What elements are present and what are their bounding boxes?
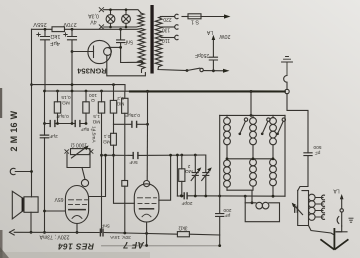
switch lever mains	[187, 68, 200, 70]
capacitor C2 electrolytic	[68, 29, 77, 91]
antenna symbol inverted	[320, 228, 348, 250]
wire R8 bottom to AF7 cathode	[114, 145, 135, 203]
RES164 filament	[72, 216, 82, 219]
fuse S1 body	[188, 14, 201, 19]
wire caps row	[45, 123, 87, 125]
node mid link col1	[226, 157, 229, 160]
node switch pivot	[186, 69, 189, 72]
RGN354 anode side contact	[104, 48, 112, 56]
wire RES164 anode up	[89, 155, 106, 196]
AF7 filament	[142, 214, 151, 217]
node HV tap	[140, 61, 143, 64]
node C1 top	[44, 28, 47, 31]
svg-text:RGN354: RGN354	[76, 67, 106, 76]
plus sign C1	[37, 33, 40, 36]
wire top B+ line right of R1	[65, 28, 142, 31]
svg-text:Ω: Ω	[91, 97, 95, 103]
bus1 B+ horizontal	[32, 85, 126, 92]
jack plug symbol	[337, 212, 342, 226]
wire mains tap 220	[161, 16, 175, 18]
band switch lever 3	[276, 133, 279, 136]
lamp LP1	[106, 10, 115, 27]
wire R6 bottom long	[124, 113, 126, 180]
RGN354 filament electrode	[93, 46, 95, 58]
svg-text:0,25μF: 0,25μF	[125, 112, 140, 118]
svg-text:220: 220	[163, 16, 172, 22]
svg-text:LA: LA	[206, 29, 213, 35]
output tube RES164 grid cap	[81, 179, 88, 186]
wire filament feed to RGN354	[72, 51, 94, 53]
wire 1nF row	[102, 154, 206, 156]
node caps row R3b	[85, 122, 88, 125]
node anode junction	[119, 46, 122, 49]
node caps row R2	[56, 122, 59, 125]
svg-text:2μF: 2μF	[49, 133, 57, 139]
svg-text:1,5: 1,5	[93, 113, 100, 119]
wire RES164 bottom	[76, 224, 78, 233]
resistor R7 body AF7 top	[122, 181, 128, 187]
resistor R3 100 body	[85, 91, 87, 102]
node caps row left	[43, 122, 46, 125]
wire C1 rail lower	[44, 91, 46, 232]
output tube RES164 envelope	[65, 186, 88, 224]
oscillator rectangle	[245, 196, 279, 222]
fuse S1 wire	[182, 16, 188, 18]
wire R4 bottom long	[101, 113, 103, 232]
coil L2a	[250, 115, 257, 158]
plus sign C2	[64, 33, 67, 36]
node trimmer2 bottom	[204, 195, 207, 198]
speaker diaphragm bar	[22, 198, 24, 212]
wire top B+ line	[32, 28, 53, 30]
bus2 chassis left part	[45, 90, 131, 92]
svg-text:220V ; 73mA: 220V ; 73mA	[39, 234, 70, 240]
wire RES164 left to speaker rail	[45, 210, 66, 212]
node 2M bottom	[180, 195, 183, 198]
node bus2 R3	[100, 90, 103, 93]
node 1nF row left	[100, 154, 103, 157]
node col3 bottom	[272, 195, 275, 198]
node bus2 coil feed	[250, 90, 253, 93]
svg-text:200: 200	[223, 207, 231, 213]
bottom rail	[102, 245, 220, 247]
AF7 anode line	[140, 208, 154, 210]
svg-text:5nF: 5nF	[101, 222, 109, 228]
bottom smudge	[0, 252, 150, 258]
edge artifact corner	[0, 247, 9, 258]
speaker driver box	[24, 197, 38, 213]
svg-text:255V: 255V	[33, 21, 47, 27]
wire bus to frame	[250, 92, 252, 116]
node bus2 grid feed	[146, 90, 149, 93]
terminal circle on bus end	[285, 89, 289, 93]
node lamp LP1 top	[109, 8, 112, 11]
svg-text:0,3A: 0,3A	[88, 12, 99, 18]
svg-text:250pF: 250pF	[195, 52, 209, 58]
resistor 2M body	[181, 155, 183, 169]
tube AF7 envelope	[134, 184, 159, 222]
wire AF7 grid feed	[146, 124, 148, 180]
antenna tap wires	[315, 198, 323, 218]
arrowhead switched lead	[223, 69, 230, 73]
svg-text:5nF: 5nF	[129, 159, 137, 165]
earth mark small	[349, 218, 353, 222]
resistor R5 0,2M body	[113, 85, 115, 101]
svg-text:1000 Ω: 1000 Ω	[71, 142, 88, 148]
node lamp LP2 top	[125, 8, 128, 11]
node mid link col2	[252, 157, 255, 160]
svg-text:MΩ: MΩ	[62, 99, 70, 105]
wire jack to antenna	[336, 226, 342, 232]
resistor R1 1kOhm body	[52, 27, 65, 32]
node tone row R7	[123, 232, 126, 235]
tube AF7 grid cap	[144, 181, 150, 187]
svg-text:110: 110	[162, 37, 170, 43]
wire 20pF row left top	[176, 155, 178, 196]
arrowhead LA jack	[340, 194, 344, 199]
wire lamp rail bottom	[104, 26, 141, 27]
capacitor 250pF	[209, 39, 217, 71]
terminal 110	[175, 35, 178, 39]
wire RGN354 bottom to winding end	[107, 55, 146, 76]
wire pot to RES164 grid	[82, 168, 85, 180]
svg-text:0,15: 0,15	[61, 94, 71, 100]
svg-text:2: 2	[187, 163, 190, 169]
wire cathode rail bottom	[14, 231, 99, 233]
switch contact circle	[200, 68, 203, 71]
node 200pF top	[218, 195, 221, 198]
node 20pF row left	[180, 194, 183, 197]
arrowhead mains lead	[224, 14, 231, 18]
edge artifact left upper	[0, 88, 2, 118]
svg-text:S 1: S 1	[191, 18, 199, 24]
wire lamp rail top	[104, 10, 141, 13]
node AF7 bottom rail	[145, 244, 148, 247]
jack circle	[340, 209, 343, 212]
node grid feed	[146, 123, 149, 126]
svg-text:100: 100	[89, 92, 97, 98]
capacitor 20pF plates	[184, 193, 187, 199]
capacitor C1 4uF electrolytic	[41, 29, 50, 91]
svg-text:2 M 16 W: 2 M 16 W	[9, 110, 19, 151]
svg-text:pF: pF	[315, 150, 321, 156]
wire RGN354 anode	[109, 46, 121, 48]
capacitor C5 5nF	[117, 29, 125, 47]
wire 3k to 200pF column	[189, 234, 219, 245]
coil frame top	[220, 114, 285, 116]
transformer T1 winding 4V	[138, 13, 144, 26]
coupling coil L4	[245, 202, 256, 204]
antenna coil frame	[298, 191, 309, 226]
antenna tap hooks	[321, 195, 324, 219]
wire grid feed vertical	[147, 91, 149, 124]
node input terminal	[30, 170, 33, 173]
RES164 grid dashes	[69, 200, 88, 205]
resistor R4 1,5M body	[101, 91, 103, 102]
capacitor 500pF	[298, 153, 312, 191]
rectifier tube RGN354 envelope	[88, 40, 111, 63]
node bus2 x72	[71, 90, 74, 93]
node bus2 R1	[56, 90, 59, 93]
ground symbol top right (inverted)	[282, 57, 293, 76]
lamp LP2	[122, 10, 131, 27]
svg-text:4μF: 4μF	[50, 40, 60, 46]
capacitor 0,25uF plates	[132, 121, 137, 127]
capacitor 8uF plates	[75, 121, 80, 127]
fuse S1 inner line	[188, 15, 201, 17]
svg-text:0,1: 0,1	[103, 133, 110, 139]
input terminal hook	[10, 168, 15, 174]
wire left B+ rail vertical	[31, 29, 33, 197]
svg-text:3kΩ: 3kΩ	[178, 225, 187, 231]
svg-text:65V: 65V	[54, 196, 64, 202]
svg-text:30V, 1mA: 30V, 1mA	[109, 234, 130, 240]
wire C2 tail to caps row	[71, 91, 73, 124]
node lamp LP1 bottom	[109, 26, 112, 29]
AF7 grid dashes	[138, 198, 157, 204]
node tone row AF7	[145, 232, 148, 235]
coil frame right	[284, 115, 286, 196]
capacitor 1nF plates	[133, 153, 138, 159]
volume potentiometer body	[71, 149, 91, 155]
coil L1b	[224, 160, 231, 190]
wire R5 bottom	[113, 113, 115, 124]
wire input terminal	[15, 171, 31, 173]
wire R3 bottom	[85, 113, 87, 123]
band switch lever 2	[261, 133, 264, 136]
edge artifact left lower	[0, 230, 3, 258]
svg-text:pF: pF	[225, 212, 231, 218]
chevron terminal bottom left	[9, 230, 14, 235]
node speaker rail tee	[43, 210, 46, 213]
trimmer capacitor 2	[203, 155, 209, 196]
node rail end	[218, 244, 221, 247]
wire R7 bottom	[124, 186, 126, 233]
svg-text:MΩ: MΩ	[103, 139, 111, 145]
node bus1 R4	[112, 83, 115, 86]
svg-text:LA: LA	[333, 187, 340, 193]
wire mains lead	[201, 16, 227, 18]
wire AF7 bottom	[146, 222, 148, 246]
svg-text:14,5mA: 14,5mA	[91, 126, 97, 143]
svg-text:4V: 4V	[90, 18, 97, 24]
terminal 130	[175, 25, 178, 29]
node C5 top	[119, 28, 122, 31]
svg-text:130: 130	[162, 26, 171, 32]
wire speaker box bottom	[30, 212, 32, 232]
band switch lever 1	[239, 133, 242, 136]
svg-text:MΩ: MΩ	[116, 101, 124, 107]
transformer primary winding	[155, 17, 162, 67]
svg-text:500: 500	[313, 144, 321, 150]
potentiometer arrow	[72, 147, 87, 158]
resistor R2 0,15M body	[57, 91, 59, 102]
capacitor 200pF column	[216, 115, 224, 235]
RES164 anode line	[69, 209, 85, 211]
node 20pF row top	[176, 154, 179, 157]
wire mains tap 130	[161, 26, 174, 28]
fuse cross mark bottom	[99, 25, 103, 29]
svg-text:20pF: 20pF	[181, 200, 192, 206]
wire coil bottom to antenna	[309, 226, 335, 236]
svg-text:RES 164: RES 164	[58, 242, 94, 252]
resistor 3k body	[177, 232, 189, 237]
antenna symbol bar	[336, 231, 347, 233]
wire anode junction to HV tap	[121, 47, 142, 62]
node mid link col3	[272, 157, 275, 160]
speaker cone	[12, 191, 22, 219]
node R8 line crossing	[112, 154, 115, 157]
wire tone row	[104, 233, 177, 235]
antenna trimmer	[295, 206, 298, 212]
wire mid coil link	[227, 158, 273, 160]
node RES164 anode top	[104, 154, 107, 157]
wire switch to lead	[203, 70, 225, 72]
node frame col2	[250, 114, 253, 117]
coil L1a	[224, 115, 231, 158]
coil L3a	[270, 115, 277, 158]
fuse cross mark top	[99, 8, 103, 12]
node x44 bottom	[43, 231, 46, 234]
capacitor 2uF	[40, 135, 48, 138]
cross mark pot right	[89, 150, 93, 154]
wire pot left down	[67, 154, 90, 168]
node lamp LP2 bottom	[125, 26, 128, 29]
bus2 chassis thick part	[130, 90, 285, 92]
node C2 top	[71, 28, 74, 31]
node osc rect left	[244, 195, 247, 198]
node filament tap	[71, 50, 74, 53]
capacitor 5nF output plates	[100, 229, 103, 236]
svg-text:AF 7: AF 7	[122, 240, 145, 250]
node bus1 left corner	[30, 83, 33, 86]
coil L3b	[270, 159, 277, 196]
antenna coil loops	[309, 194, 316, 220]
wire AF7 anode right	[159, 155, 171, 200]
coil L2b	[250, 159, 257, 190]
transformer T1 winding HV	[138, 29, 145, 73]
wire mains tap 110	[161, 37, 174, 39]
node bus2 C1	[43, 90, 46, 93]
resistor R8 0,1M body	[113, 124, 115, 133]
node 250pF bottom	[212, 69, 215, 72]
cross mark pot left	[65, 150, 69, 154]
svg-text:5nF: 5nF	[124, 39, 133, 45]
resistor R6 body	[124, 92, 126, 98]
terminal 220	[175, 14, 178, 18]
svg-text:MΩ: MΩ	[185, 168, 193, 174]
transformer core	[150, 5, 153, 74]
node RES164 bottom	[76, 231, 79, 234]
node AF7 anode top	[169, 154, 172, 157]
node osc coil tap	[251, 201, 254, 204]
node 2M top	[180, 154, 183, 157]
wire jack upper	[341, 198, 343, 209]
svg-text:20W: 20W	[219, 33, 231, 39]
capacitor 0,5uF plates	[50, 121, 55, 127]
svg-text:0,5μF: 0,5μF	[56, 113, 68, 119]
wire R2 bottom	[57, 113, 59, 123]
svg-text:MΩ: MΩ	[92, 119, 100, 125]
node trimmer1 top	[194, 154, 197, 157]
wire osc frame bottom	[227, 190, 252, 203]
wire 500pF feed	[287, 94, 308, 153]
wire coupling row	[114, 123, 148, 125]
node trimmer1 bottom	[194, 195, 197, 198]
svg-text:1kΩ: 1kΩ	[50, 33, 60, 39]
arrowhead to dial lamp	[212, 35, 216, 40]
node caps row x72	[71, 122, 74, 125]
wire 20pF row	[177, 195, 285, 197]
wire primary bottom to switch	[158, 67, 187, 71]
node speaker bottom	[30, 231, 33, 234]
ground lead hook	[284, 76, 287, 90]
node bus1 x72	[71, 83, 74, 86]
node bus2 R2	[85, 90, 88, 93]
svg-text:270V: 270V	[63, 21, 77, 27]
trimmer capacitor 1	[192, 155, 198, 196]
